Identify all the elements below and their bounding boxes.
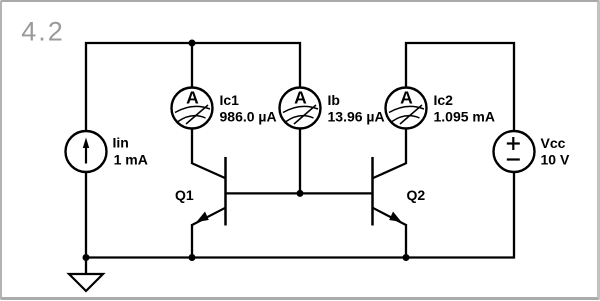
wire: top-left rail with Iin and Ib drops [86,43,300,131]
svg-text:A: A [294,88,307,108]
svg-text:Iin: Iin [113,135,129,151]
wire: Ic1 drop from top rail [191,43,193,88]
svg-text:1.095 mA: 1.095 mA [434,109,495,125]
wire: Iin bottom to ground node [85,172,87,275]
svg-text:Vcc: Vcc [541,135,566,151]
svg-text:13.96 µA: 13.96 µA [328,109,385,125]
svg-text:A: A [186,88,199,108]
ammeter Ib [280,88,321,129]
node: Q2 emitter at bottom rail [403,254,410,261]
wire: Ic1 ammeter to Q1 collector [191,128,193,164]
wire: bottom rail from Vcc to ground [86,172,514,258]
wire: top-right rail Ic2 to Vcc [406,43,514,131]
transistor Q1 [192,157,226,226]
wire: Q2 emitter to bottom rail [405,224,407,258]
svg-text:A: A [400,88,413,108]
ground [69,274,103,291]
svg-text:Ic2: Ic2 [434,92,454,108]
node: ground junction [83,254,90,261]
svg-text:Ic1: Ic1 [220,92,240,108]
ammeter Ic1 [172,88,213,129]
node: top rail junction at Ic1 [189,40,196,47]
node: base rail junction at Ib [297,190,304,197]
wire: Ib ammeter to base rail [299,128,301,193]
svg-text:10 V: 10 V [541,152,570,168]
svg-text:4.2: 4.2 [21,17,65,47]
svg-text:Q2: Q2 [407,187,426,203]
current source Iin [66,131,107,172]
voltage source Vcc [494,131,535,172]
svg-text:1 mA: 1 mA [114,152,148,168]
wire: Ic2 ammeter to Q2 collector [405,128,407,164]
svg-text:986.0 µA: 986.0 µA [220,109,277,125]
wire: Q1 emitter to bottom rail [191,224,193,258]
transistor Q2 [373,157,407,226]
wire: base rail Q1 to Q2 [226,192,373,194]
svg-text:Ib: Ib [328,92,340,108]
node: Q1 emitter at bottom rail [189,254,196,261]
ammeter Ic2 [386,88,427,129]
svg-text:Q1: Q1 [175,187,194,203]
